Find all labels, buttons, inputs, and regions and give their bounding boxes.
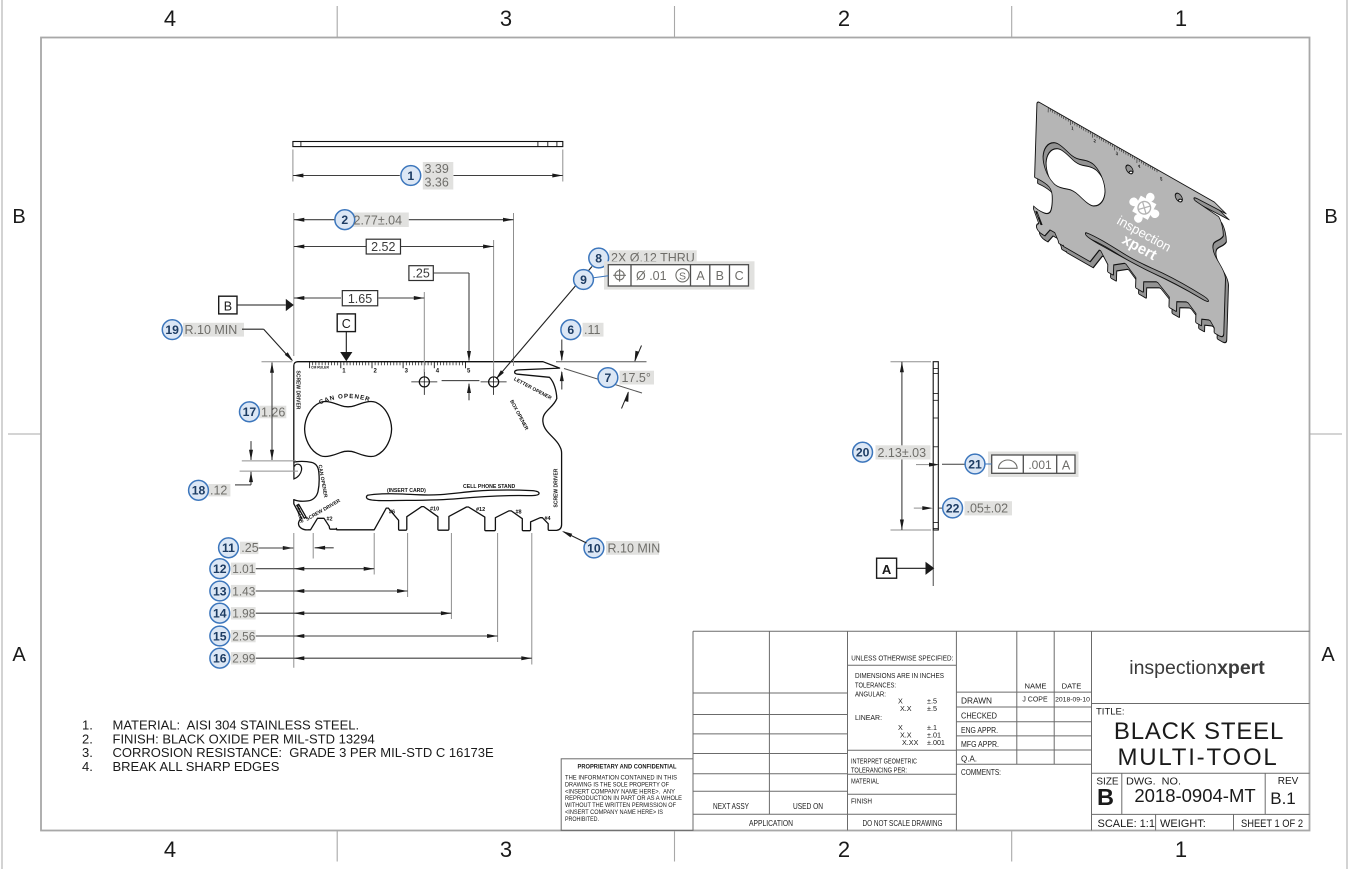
svg-text:2: 2 (838, 837, 850, 862)
svg-text:FINISH: FINISH (851, 797, 872, 806)
svg-text:ANGULAR:: ANGULAR: (855, 690, 886, 699)
svg-text:COMMENTS:: COMMENTS: (961, 768, 1001, 777)
svg-text:3.: 3. (82, 745, 93, 760)
svg-text:#2: #2 (327, 517, 333, 523)
svg-text:INTERPRET GEOMETRIC: INTERPRET GEOMETRIC (851, 757, 917, 766)
svg-text:.05±.02: .05±.02 (967, 502, 1009, 516)
svg-text:WEIGHT:: WEIGHT: (1160, 818, 1206, 830)
svg-text:.25: .25 (412, 266, 429, 280)
svg-text:3.36: 3.36 (425, 176, 449, 190)
svg-text:ENG APPR.: ENG APPR. (961, 726, 998, 735)
svg-text:<INSERT COMPANY NAME HERE> IS: <INSERT COMPANY NAME HERE> IS (565, 810, 663, 816)
svg-text:DRAWN: DRAWN (961, 697, 992, 706)
svg-text:B.1: B.1 (1270, 789, 1296, 808)
svg-text:R.10 MIN: R.10 MIN (608, 541, 661, 555)
svg-text:3.39: 3.39 (425, 162, 449, 176)
svg-text:BLACK STEEL: BLACK STEEL (1114, 718, 1284, 745)
svg-text:X.X: X.X (900, 704, 912, 713)
svg-text:S: S (679, 270, 686, 282)
svg-text:2.: 2. (82, 731, 93, 746)
svg-text:NAME: NAME (1025, 682, 1047, 691)
svg-text:DRAWING IS THE SOLE PROPERTY O: DRAWING IS THE SOLE PROPERTY OF (565, 782, 669, 788)
svg-text:18: 18 (192, 484, 206, 498)
svg-text:22: 22 (946, 501, 960, 515)
svg-text:16: 16 (213, 652, 227, 666)
svg-text:B: B (1097, 784, 1114, 810)
svg-text:J COPE: J COPE (1022, 697, 1048, 704)
svg-text:1.98: 1.98 (232, 607, 255, 621)
svg-text:LINEAR:: LINEAR: (855, 713, 882, 722)
svg-text:2.52: 2.52 (371, 240, 395, 254)
svg-text:FINISH: BLACK OXIDE PER MIL-ST: FINISH: BLACK OXIDE PER MIL-STD 13294 (113, 731, 375, 746)
svg-text:#6: #6 (389, 510, 395, 516)
svg-text:PROPRIETARY AND CONFIDENTIAL: PROPRIETARY AND CONFIDENTIAL (578, 764, 677, 771)
svg-text:APPLICATION: APPLICATION (749, 818, 793, 828)
svg-text:UNLESS OTHERWISE SPECIFIED:: UNLESS OTHERWISE SPECIFIED: (851, 654, 953, 663)
svg-text:DATE: DATE (1062, 682, 1082, 691)
svg-text:C: C (342, 317, 351, 331)
svg-text:#8: #8 (516, 510, 522, 516)
svg-text:13: 13 (213, 584, 227, 598)
svg-text:4.: 4. (82, 759, 93, 774)
svg-text:19: 19 (165, 323, 179, 337)
svg-text:11: 11 (222, 541, 235, 555)
svg-text:9: 9 (580, 273, 587, 287)
svg-text:#10: #10 (430, 507, 439, 513)
svg-text:±.5: ±.5 (927, 704, 937, 713)
svg-text:A: A (696, 269, 705, 283)
svg-text:3: 3 (500, 6, 512, 31)
svg-text:WITHOUT THE WRITTEN PERMISSION: WITHOUT THE WRITTEN PERMISSION OF (565, 803, 676, 809)
svg-text:4: 4 (164, 6, 176, 31)
svg-text:Ø .01: Ø .01 (636, 269, 667, 283)
svg-text:B: B (12, 206, 25, 228)
svg-text:CORROSION RESISTANCE: GRADE 3: CORROSION RESISTANCE: GRADE 3 PER MIL-ST… (113, 745, 495, 760)
svg-text:1: 1 (1175, 6, 1187, 31)
svg-text:TOLERANCES:: TOLERANCES: (855, 681, 896, 690)
svg-text:.001: .001 (1028, 458, 1052, 472)
svg-text:TITLE:: TITLE: (1096, 707, 1125, 718)
svg-text:1.65: 1.65 (348, 292, 372, 306)
svg-text:2.56: 2.56 (232, 629, 255, 643)
svg-text:USED ON: USED ON (793, 801, 823, 811)
svg-text:4: 4 (164, 837, 176, 862)
svg-text:REV: REV (1278, 776, 1299, 787)
svg-text:Q.A.: Q.A. (961, 755, 977, 764)
svg-text:17.5°: 17.5° (622, 371, 651, 385)
svg-text:A: A (1062, 458, 1071, 472)
svg-text:B: B (1324, 206, 1337, 228)
svg-text:6: 6 (567, 323, 574, 337)
svg-text:SCREW DRIVER: SCREW DRIVER (295, 371, 301, 410)
svg-text:THE INFORMATION CONTAINED IN T: THE INFORMATION CONTAINED IN THIS (565, 776, 677, 782)
svg-text:1.26: 1.26 (261, 405, 285, 419)
svg-text:3: 3 (500, 837, 512, 862)
svg-text:MATERIAL: MATERIAL (851, 777, 879, 786)
svg-text:B: B (224, 299, 232, 313)
svg-text:MFG APPR.: MFG APPR. (961, 740, 999, 749)
svg-text:C: C (735, 269, 744, 283)
svg-text:.12: .12 (210, 484, 227, 498)
svg-text:NEXT ASSY: NEXT ASSY (713, 801, 749, 811)
svg-text:SCALE: 1:1: SCALE: 1:1 (1098, 818, 1155, 830)
svg-text:21: 21 (968, 457, 982, 471)
svg-text:.11: .11 (584, 323, 600, 337)
svg-text:2.99: 2.99 (232, 652, 255, 666)
svg-text:(INSERT CARD): (INSERT CARD) (387, 488, 426, 494)
svg-text:17: 17 (243, 405, 257, 419)
svg-text:15: 15 (213, 629, 227, 643)
svg-text:PROHIBITED.: PROHIBITED. (565, 817, 599, 823)
svg-text:2: 2 (341, 213, 348, 227)
svg-text:R.10 MIN: R.10 MIN (185, 323, 238, 337)
svg-text:inspectionxpert: inspectionxpert (1129, 657, 1265, 679)
svg-text:8: 8 (595, 251, 602, 265)
svg-text:CM RULER: CM RULER (311, 366, 329, 370)
svg-text:CHECKED: CHECKED (961, 712, 997, 721)
svg-text:±.001: ±.001 (927, 738, 945, 747)
svg-text:DO NOT SCALE DRAWING: DO NOT SCALE DRAWING (863, 818, 943, 828)
svg-text:1.01: 1.01 (232, 562, 255, 576)
svg-text:14: 14 (213, 607, 227, 621)
svg-text:<INSERT COMPANY NAME HERE>. A: <INSERT COMPANY NAME HERE>. ANY (565, 789, 675, 795)
svg-text:2018-0904-MT: 2018-0904-MT (1134, 785, 1255, 806)
svg-text:#12: #12 (476, 507, 485, 513)
svg-text:2.13±.03: 2.13±.03 (878, 446, 927, 460)
svg-text:20: 20 (856, 446, 870, 460)
svg-text:B: B (716, 269, 724, 283)
svg-text:1: 1 (407, 169, 414, 183)
svg-text:SCREW DRIVER: SCREW DRIVER (554, 468, 560, 507)
svg-text:CELL PHONE STAND: CELL PHONE STAND (463, 484, 516, 490)
svg-text:A: A (882, 562, 892, 577)
svg-text:.25: .25 (241, 541, 258, 555)
svg-text:MULTI-TOOL: MULTI-TOOL (1117, 744, 1278, 771)
svg-text:A: A (1321, 644, 1335, 666)
svg-text:#4: #4 (545, 516, 552, 522)
svg-text:2: 2 (838, 6, 850, 31)
svg-text:2018-09-10: 2018-09-10 (1055, 697, 1090, 704)
svg-text:1.43: 1.43 (232, 584, 255, 598)
svg-text:12: 12 (213, 562, 227, 576)
svg-text:REPRODUCTION IN PART OR AS A W: REPRODUCTION IN PART OR AS A WHOLE (565, 796, 682, 802)
svg-text:A: A (12, 644, 26, 666)
svg-text:2.77±.04: 2.77±.04 (354, 213, 403, 227)
svg-text:MATERIAL: AISI 304 STAINLESS: MATERIAL: AISI 304 STAINLESS STEEL. (113, 718, 360, 733)
svg-text:1.: 1. (82, 718, 93, 733)
svg-text:1: 1 (1175, 837, 1187, 862)
svg-text:BREAK ALL SHARP EDGES: BREAK ALL SHARP EDGES (113, 759, 280, 774)
svg-text:TOLERANCING PER:: TOLERANCING PER: (851, 766, 907, 775)
svg-text:DIMENSIONS ARE IN INCHES: DIMENSIONS ARE IN INCHES (855, 671, 944, 680)
svg-text:SHEET 1 OF 2: SHEET 1 OF 2 (1241, 818, 1303, 830)
svg-text:10: 10 (587, 541, 601, 555)
svg-text:7: 7 (605, 371, 612, 385)
svg-text:X.XX: X.XX (902, 738, 919, 747)
